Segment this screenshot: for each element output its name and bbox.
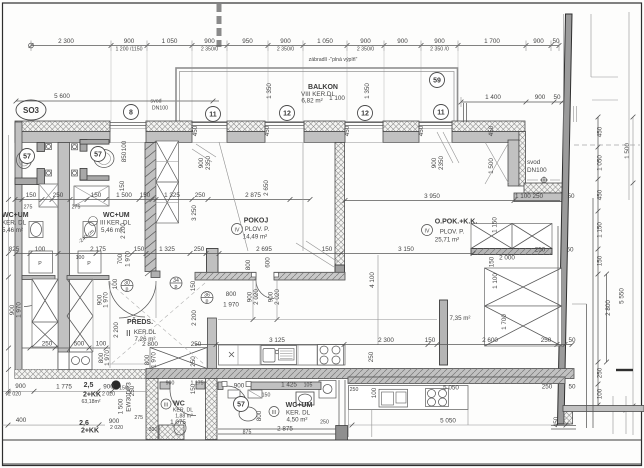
svg-text:2 020: 2 020	[253, 289, 260, 305]
svg-text:DN100: DN100	[527, 167, 547, 174]
svg-text:2 000: 2 000	[499, 255, 515, 262]
pokoj door arc	[256, 281, 274, 299]
svg-text:1 970: 1 970	[125, 251, 132, 267]
svg-text:100: 100	[96, 341, 107, 348]
svg-text:1 200 /1150: 1 200 /1150	[115, 46, 142, 52]
marker circle 176	[170, 277, 182, 289]
svg-text:SO3: SO3	[23, 106, 40, 115]
duct truss column	[156, 141, 179, 223]
svg-text:zábradlí -"plná výplň": zábradlí -"plná výplň"	[309, 57, 358, 63]
circle 12 a	[280, 106, 295, 121]
right dim chain 2800	[606, 274, 608, 362]
svg-text:1 500: 1 500	[116, 192, 132, 199]
svg-text:1 970: 1 970	[103, 292, 110, 308]
shaft left xbox	[32, 279, 58, 347]
svg-text:250: 250	[195, 192, 206, 199]
svg-text:100: 100	[597, 388, 604, 399]
svg-text:50: 50	[568, 337, 576, 344]
lower wcum toilet	[239, 407, 257, 421]
lower wc hatch corner	[159, 425, 184, 440]
right dim chain outer	[632, 117, 634, 435]
circle 11 b	[434, 105, 449, 120]
opok window leader	[437, 132, 453, 163]
kitchen lower counter sink stove	[349, 386, 469, 410]
svg-text:2 020: 2 020	[8, 391, 21, 397]
svg-text:250: 250	[194, 246, 205, 253]
svg-text:2 350/0: 2 350/0	[277, 46, 294, 52]
pillar pokoj door	[207, 249, 219, 280]
preds door arc	[119, 281, 156, 318]
bottom dim row B	[3, 424, 106, 426]
svg-text:250: 250	[53, 192, 64, 199]
svg-text:250: 250	[597, 367, 604, 378]
svg-text:1 500: 1 500	[488, 158, 495, 174]
svg-text:63,18m²: 63,18m²	[81, 399, 100, 405]
svg-text:900: 900	[234, 383, 245, 390]
svg-text:250: 250	[541, 337, 552, 344]
door dim ticks	[218, 319, 437, 321]
bottom wall hatch part	[15, 370, 146, 379]
svg-text:900: 900	[198, 157, 205, 168]
circle 57 left	[20, 149, 35, 164]
svg-text:3 250: 3 250	[191, 205, 198, 221]
svg-text:2350: 2350	[205, 156, 212, 171]
svg-text:450: 450	[192, 125, 199, 136]
dim 5600	[16, 100, 219, 102]
svg-text:7,35 m²: 7,35 m²	[450, 315, 471, 322]
lower wcum boxes	[228, 390, 240, 398]
svg-text:2 875: 2 875	[277, 426, 293, 433]
lower wc top wall	[160, 382, 170, 389]
top dimension chain	[31, 45, 559, 47]
svg-text:950: 950	[242, 38, 253, 45]
svg-text:450: 450	[264, 125, 271, 136]
lower wcum basin	[296, 392, 314, 405]
svg-text:PŘEDS.: PŘEDS.	[127, 317, 153, 326]
svg-text:250: 250	[190, 356, 197, 367]
wc1 niche bar	[15, 178, 40, 185]
svg-text:150: 150	[190, 383, 197, 394]
circle 12 b	[358, 106, 373, 121]
svg-text:900: 900	[124, 38, 135, 45]
svg-text:2 650: 2 650	[263, 180, 270, 196]
svg-text:1 050: 1 050	[317, 38, 333, 45]
svg-text:svod: svod	[151, 99, 162, 105]
svg-text:2+KK: 2+KK	[83, 392, 101, 399]
svg-text:1 400: 1 400	[485, 94, 501, 101]
svg-text:900: 900	[15, 383, 26, 390]
svg-text:150: 150	[26, 192, 37, 199]
svg-text:1 100: 1 100	[329, 95, 345, 102]
svg-text:2 350/0: 2 350/0	[201, 46, 218, 52]
right neighbor wall band	[563, 406, 644, 412]
party wall x58	[58, 143, 70, 374]
svg-text:IV: IV	[235, 228, 240, 234]
svg-text:WC: WC	[173, 401, 185, 408]
svg-text:2 350/0: 2 350/0	[357, 46, 374, 52]
svg-text:1 700: 1 700	[501, 314, 508, 330]
svg-text:250: 250	[350, 387, 359, 393]
svg-text:900: 900	[204, 38, 215, 45]
svg-text:KER. DL: KER. DL	[2, 220, 27, 227]
right wall bottom lines	[551, 425, 576, 427]
svg-text:450: 450	[597, 126, 604, 137]
svg-text:57: 57	[237, 402, 245, 409]
wc door arc 2	[109, 281, 145, 317]
right wall inner line	[563, 14, 565, 201]
svg-text:57: 57	[23, 154, 31, 161]
svg-text:5 050: 5 050	[443, 385, 459, 392]
svg-text:850: 850	[121, 151, 128, 162]
svg-text:5 600: 5 600	[54, 93, 70, 100]
lower wc toilet	[174, 421, 186, 435]
wc2 basin	[83, 222, 97, 238]
svg-text:450: 450	[488, 125, 495, 136]
svg-text:275: 275	[134, 415, 143, 421]
svg-text:1 150: 1 150	[597, 222, 604, 238]
svg-text:900: 900	[109, 418, 120, 425]
svg-text:150: 150	[140, 192, 151, 199]
wc2 washer	[78, 251, 101, 273]
svg-text:150: 150	[597, 255, 604, 266]
svg-text:2 300: 2 300	[58, 38, 74, 45]
svg-text:12: 12	[361, 111, 369, 118]
wardrobe xbox	[150, 348, 207, 369]
dim chain 1400-900-50	[461, 101, 567, 103]
wc2 hinge squares	[72, 144, 78, 150]
svg-text:900: 900	[280, 38, 291, 45]
kitchen dim line	[195, 344, 572, 346]
svg-text:1 150: 1 150	[492, 217, 499, 233]
svg-text:50: 50	[552, 38, 560, 45]
svg-text:PLOV. P.: PLOV. P.	[245, 226, 270, 233]
circle 57 lower	[234, 397, 249, 412]
svg-text:59: 59	[433, 78, 441, 85]
wc1 shower	[39, 184, 58, 207]
svg-text:150: 150	[262, 393, 271, 399]
svg-text:450: 450	[344, 125, 351, 136]
svg-text:2+KK: 2+KK	[81, 428, 99, 435]
svg-text:250: 250	[320, 420, 329, 426]
staircase xbox low	[485, 306, 562, 346]
lower wc door arc	[170, 390, 196, 416]
svg-text:p: p	[126, 287, 129, 293]
svg-text:1 350: 1 350	[364, 83, 371, 99]
pokoj bottom wall right seg	[274, 272, 345, 280]
right dim chain inner	[597, 117, 599, 407]
svg-text:2 800: 2 800	[605, 300, 612, 316]
lower wall x146	[146, 379, 158, 440]
wc1 toilet	[17, 152, 32, 169]
svg-text:3 150: 3 150	[398, 246, 414, 253]
svg-text:50: 50	[566, 247, 574, 254]
svg-text:2 300: 2 300	[378, 337, 394, 344]
svg-text:2,5: 2,5	[84, 382, 94, 389]
svg-text:11: 11	[209, 112, 217, 119]
svg-text:III: III	[164, 403, 168, 409]
svg-text:100: 100	[121, 140, 128, 151]
title block divider line	[3, 439, 642, 441]
svg-text:III: III	[272, 410, 276, 416]
pokoj window leader	[219, 142, 248, 251]
svg-text:2 200: 2 200	[113, 322, 120, 338]
svg-text:1 350: 1 350	[266, 83, 273, 99]
svg-text:1 970: 1 970	[223, 302, 239, 309]
svg-text:1 050: 1 050	[162, 38, 178, 45]
svg-text:250: 250	[42, 341, 53, 348]
kitchenette 2kk	[69, 352, 92, 370]
bottom wall gray part	[146, 369, 574, 379]
svg-text:1 050: 1 050	[597, 155, 604, 171]
staircase top xbox	[471, 224, 552, 249]
svg-text:2 020: 2 020	[110, 425, 123, 431]
pokoj window ext	[302, 143, 304, 251]
svg-text:700: 700	[117, 253, 124, 264]
right exterior wall	[558, 14, 573, 424]
svg-text:1 500: 1 500	[118, 398, 125, 414]
svg-text:1 075: 1 075	[170, 419, 186, 426]
wc1 basin	[29, 222, 43, 238]
svg-text:IV: IV	[425, 229, 430, 235]
circle 8	[124, 105, 139, 120]
svg-text:POKOJ: POKOJ	[244, 218, 269, 225]
step wall vertical	[508, 140, 519, 186]
svg-text:WC+UM: WC+UM	[2, 212, 29, 219]
svg-text:250: 250	[368, 351, 375, 362]
svg-text:450: 450	[418, 125, 425, 136]
corridor dashed X	[110, 283, 205, 365]
svg-text:4,50 m²: 4,50 m²	[287, 417, 308, 424]
right wall bottom hatch block	[564, 410, 573, 424]
corridor west line	[109, 281, 111, 368]
door swing diagonal	[485, 142, 509, 184]
svg-text:3 950: 3 950	[424, 193, 440, 200]
staircase xbox mid	[485, 268, 562, 306]
lower kitchen top wall	[348, 377, 565, 384]
svg-text:3 125: 3 125	[269, 337, 285, 344]
svg-text:5,46 m²: 5,46 m²	[2, 227, 23, 234]
window lines in top wall	[110, 122, 146, 124]
svg-text:900: 900	[434, 38, 445, 45]
shaft dim row	[22, 347, 110, 349]
section cut dashed line	[217, 4, 222, 47]
svg-text:450: 450	[553, 416, 560, 427]
dashed line right	[574, 144, 640, 146]
balcony railing	[176, 68, 458, 122]
svg-text:1 425: 1 425	[281, 382, 297, 389]
wc2 niche bar	[80, 176, 109, 181]
svg-text:150: 150	[489, 256, 496, 267]
svg-text:11: 11	[437, 110, 445, 117]
svg-text:1 775: 1 775	[56, 384, 72, 391]
svg-text:800: 800	[226, 291, 237, 298]
svg-text:p: p	[206, 299, 209, 305]
neighbor outline	[590, 14, 592, 77]
svg-text:105: 105	[304, 383, 313, 389]
svg-text:50: 50	[553, 94, 561, 101]
svg-text:8: 8	[129, 110, 133, 117]
svg-text:2 600: 2 600	[482, 337, 498, 344]
svg-text:150: 150	[91, 192, 102, 199]
lower wall x205	[206, 379, 218, 440]
svg-text:900: 900	[535, 94, 546, 101]
svg-text:1 100 250: 1 100 250	[515, 193, 544, 200]
wc1 washer	[29, 251, 53, 273]
svg-text:2 875: 2 875	[245, 192, 261, 199]
left exterior wall	[15, 122, 22, 377]
svg-text:1 970: 1 970	[151, 352, 158, 368]
left margin chain	[8, 135, 10, 393]
step wall horizontal hatch	[524, 183, 567, 193]
svg-text:57: 57	[94, 152, 102, 159]
svg-text:250: 250	[129, 385, 136, 396]
top exterior wall blocks	[15, 121, 110, 132]
svg-text:450: 450	[597, 189, 604, 200]
svg-text:5,46 m²: 5,46 m²	[101, 227, 122, 234]
svg-text:25,71 m²: 25,71 m²	[435, 237, 459, 244]
svg-text:250: 250	[535, 247, 546, 254]
svg-text:250: 250	[542, 384, 553, 391]
svg-text:500: 500	[74, 341, 85, 348]
svg-text:KER.DL: KER.DL	[134, 329, 157, 336]
svg-text:PLOV. P.: PLOV. P.	[440, 229, 465, 236]
svg-text:1 970: 1 970	[16, 302, 23, 318]
svg-text:2 800: 2 800	[142, 341, 158, 348]
svg-text:900: 900	[360, 38, 371, 45]
svg-text:2 200: 2 200	[120, 223, 127, 239]
marker circle 207	[201, 292, 213, 304]
svg-text:900: 900	[397, 38, 408, 45]
svg-text:900: 900	[103, 384, 114, 391]
svg-text:100: 100	[112, 278, 119, 289]
EW30 marker	[111, 380, 120, 389]
svg-text:900: 900	[533, 38, 544, 45]
svg-text:BALKON: BALKON	[308, 84, 338, 91]
bottom dim row A	[3, 390, 146, 392]
svg-text:II: II	[126, 328, 131, 338]
lower corner basin	[319, 381, 336, 399]
wc door arc 1	[24, 280, 51, 307]
svg-text:1 100: 1 100	[492, 273, 499, 289]
svg-text:100: 100	[35, 246, 46, 253]
step wall horizontal gray	[514, 193, 565, 202]
svg-text:800: 800	[256, 410, 263, 421]
svg-text:2 020: 2 020	[102, 392, 115, 398]
svg-text:250: 250	[191, 341, 202, 348]
corridor south line	[110, 363, 150, 365]
svg-text:1 700: 1 700	[484, 38, 500, 45]
svg-text:300: 300	[149, 427, 158, 433]
svg-text:100: 100	[76, 255, 85, 261]
svg-text:O.POK.+K.K.: O.POK.+K.K.	[435, 219, 478, 226]
pokoj right wall	[335, 143, 345, 272]
svg-text:100: 100	[371, 387, 378, 398]
wc1 hinge squares	[46, 144, 52, 150]
dim 3950	[345, 200, 560, 202]
svg-text:1 325: 1 325	[164, 192, 180, 199]
svg-text:825: 825	[9, 246, 20, 253]
pokoj door hinge squares	[252, 273, 257, 278]
svg-text:4 100: 4 100	[369, 272, 376, 288]
svg-text:275: 275	[24, 205, 33, 211]
svg-text:2 200: 2 200	[191, 310, 198, 326]
svg-text:12: 12	[283, 111, 291, 118]
wc rooms bottom wall	[22, 276, 55, 280]
svg-text:600: 600	[265, 257, 272, 268]
wc2 III circle	[89, 217, 98, 226]
svg-text:50: 50	[568, 384, 576, 391]
svg-text:2 175: 2 175	[90, 246, 106, 253]
svg-text:150: 150	[119, 180, 126, 191]
svg-text:svod: svod	[527, 159, 541, 166]
pokoj bottom wall left seg	[195, 272, 256, 280]
lower wcum top wall	[218, 382, 223, 390]
svg-text:6,82 m²: 6,82 m²	[301, 98, 322, 105]
circle 57 right	[91, 147, 106, 162]
staircase landing band	[471, 249, 552, 255]
SO3 bubble	[16, 100, 46, 120]
svg-text:P: P	[38, 261, 42, 267]
pokoj wall foot diagonals	[296, 243, 334, 267]
right railing mark	[616, 369, 633, 371]
wc2 toilet	[94, 150, 114, 168]
svg-text:5 050: 5 050	[440, 418, 456, 425]
svg-text:150: 150	[190, 280, 197, 291]
svg-text:2350: 2350	[438, 156, 445, 171]
corridor-kitchen wall	[207, 318, 216, 369]
svg-text:1 970: 1 970	[104, 350, 111, 366]
svg-text:DN100: DN100	[152, 106, 168, 112]
svg-text:275: 275	[72, 205, 81, 211]
svg-text:2 020: 2 020	[274, 289, 281, 305]
svg-text:14,49 m²: 14,49 m²	[243, 234, 267, 241]
circle 11 a	[206, 107, 221, 122]
lower wcum bottom lines	[218, 428, 336, 430]
interior dim line mid	[16, 253, 473, 255]
lower wall x336 lines	[336, 380, 338, 440]
kitchen upper counter sink stove	[219, 345, 346, 365]
svg-text:150: 150	[425, 337, 436, 344]
staircase side line	[557, 226, 559, 346]
wc2 shower	[74, 186, 109, 206]
circle 59	[430, 73, 445, 88]
svg-text:KER. DL: KER. DL	[286, 410, 311, 417]
svg-text:2,6: 2,6	[79, 420, 89, 427]
wall x145 pokoj-left	[145, 143, 156, 272]
svg-text:P: P	[87, 261, 91, 267]
marker circle 30	[121, 280, 133, 292]
svg-text:WC+UM: WC+UM	[103, 212, 130, 219]
svg-text:p: p	[175, 284, 178, 290]
svg-text:50: 50	[567, 193, 575, 200]
svg-text:800: 800	[245, 259, 252, 270]
svg-text:400: 400	[16, 417, 27, 424]
wc1 niche stub	[37, 143, 45, 152]
wall stub staircase	[440, 300, 448, 365]
svg-text:2 695: 2 695	[256, 246, 272, 253]
dimension extension lines	[110, 51, 112, 121]
svg-text:800: 800	[144, 354, 151, 365]
svg-text:875: 875	[243, 430, 252, 436]
svg-text:2 350 /0: 2 350 /0	[430, 46, 449, 52]
svg-text:150: 150	[119, 386, 128, 392]
svg-text:WC+UM: WC+UM	[286, 402, 313, 409]
svg-text:5 550: 5 550	[619, 288, 626, 304]
wc2 niche stub	[80, 140, 87, 152]
window mark	[463, 103, 465, 122]
title block lower rule	[3, 463, 642, 465]
svg-text:900: 900	[431, 157, 438, 168]
